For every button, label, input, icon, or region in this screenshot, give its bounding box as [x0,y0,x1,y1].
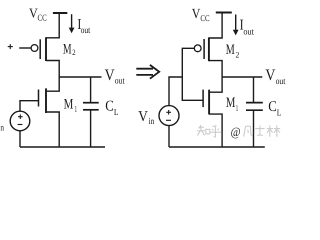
wire M1 drain to output node right [209,77,222,92]
label V_out right [265,67,285,87]
ground rail right [169,146,265,148]
svg-text:C: C [105,99,114,115]
feedback wire M2 gate to M1 gate right [182,48,203,100]
svg-text:V: V [192,7,201,22]
capacitor C_L right [246,77,263,147]
wire M1 source to ground rail right [209,114,222,147]
glyph 知 [197,125,210,136]
svg-text:M: M [226,42,235,58]
wire V_in bottom to ground rail right [168,126,170,147]
label V_CC right [192,7,210,23]
wire M2 drain to output node right [209,61,222,77]
transistor M2 right (PMOS) [194,37,209,61]
wire input to M2 gate bubble left [19,47,31,49]
wire M1 drain to output node left [46,77,59,91]
input plus label left [8,44,13,49]
capacitor C_L left [83,77,99,147]
wire M1 source to ground rail left [46,112,59,147]
label M2 left [63,41,76,57]
svg-text:@: @ [231,125,241,139]
svg-text:V: V [105,67,115,84]
glyph 凡 [244,126,253,136]
svg-text:out: out [81,26,91,36]
transistor M1 right (NMOS) [203,90,209,115]
svg-text:V: V [265,67,275,84]
label V_CC left [29,6,47,23]
glyph 士 [255,126,264,136]
svg-text:CC: CC [200,13,209,23]
wire VCC rail to M2 source left [46,13,59,38]
label C_L right [268,99,281,118]
wire V_in top to M1 gate left [20,101,39,112]
svg-text:L: L [277,108,282,118]
label I_out right [240,18,255,38]
source V_in left [10,111,30,131]
VCC rail tick right [216,12,232,14]
svg-text:2: 2 [236,50,240,59]
svg-text:V: V [138,109,148,125]
wire V_in bottom to ground rail left [19,131,21,147]
node V_out wire right [222,76,262,78]
wire M2 drain to output node left [46,61,59,78]
current arrow I_out left [69,14,75,33]
glyph 乎 [210,126,221,137]
svg-text:1: 1 [75,104,77,114]
wire VCC rail to M2 source right [209,13,222,39]
svg-text:M: M [64,97,74,113]
label M1 left [64,97,77,115]
transistor M1 left (NMOS) [39,88,47,113]
svg-text:out: out [276,77,286,87]
glyph 林 [267,125,280,136]
label M2 right [226,42,240,59]
label M1 right [226,95,238,113]
svg-text:L: L [114,107,119,117]
implication arrow [136,65,159,79]
svg-text:2: 2 [72,48,76,57]
label V_in right [138,109,154,126]
svg-text:in: in [149,116,155,126]
wire V_in top to feedback node right [169,77,182,106]
svg-text:C: C [268,99,277,115]
svg-text:M: M [63,41,72,57]
svg-text:M: M [226,95,236,111]
svg-text:1: 1 [236,103,238,113]
svg-text:n: n [0,123,4,133]
svg-text:out: out [243,28,254,38]
source V_in right [159,106,179,126]
label I_out left [77,17,90,36]
watermark 知乎 @凡士林 [197,125,280,139]
svg-text:out: out [115,76,125,86]
label V_out left [105,67,125,86]
node V_out wire left [59,76,101,78]
ground rail left [20,146,105,148]
label C_L left [105,99,118,118]
current arrow I_out right [233,15,239,36]
VCC rail tick left [53,12,67,14]
svg-text:CC: CC [38,12,47,22]
transistor M2 left (PMOS) [31,37,46,61]
